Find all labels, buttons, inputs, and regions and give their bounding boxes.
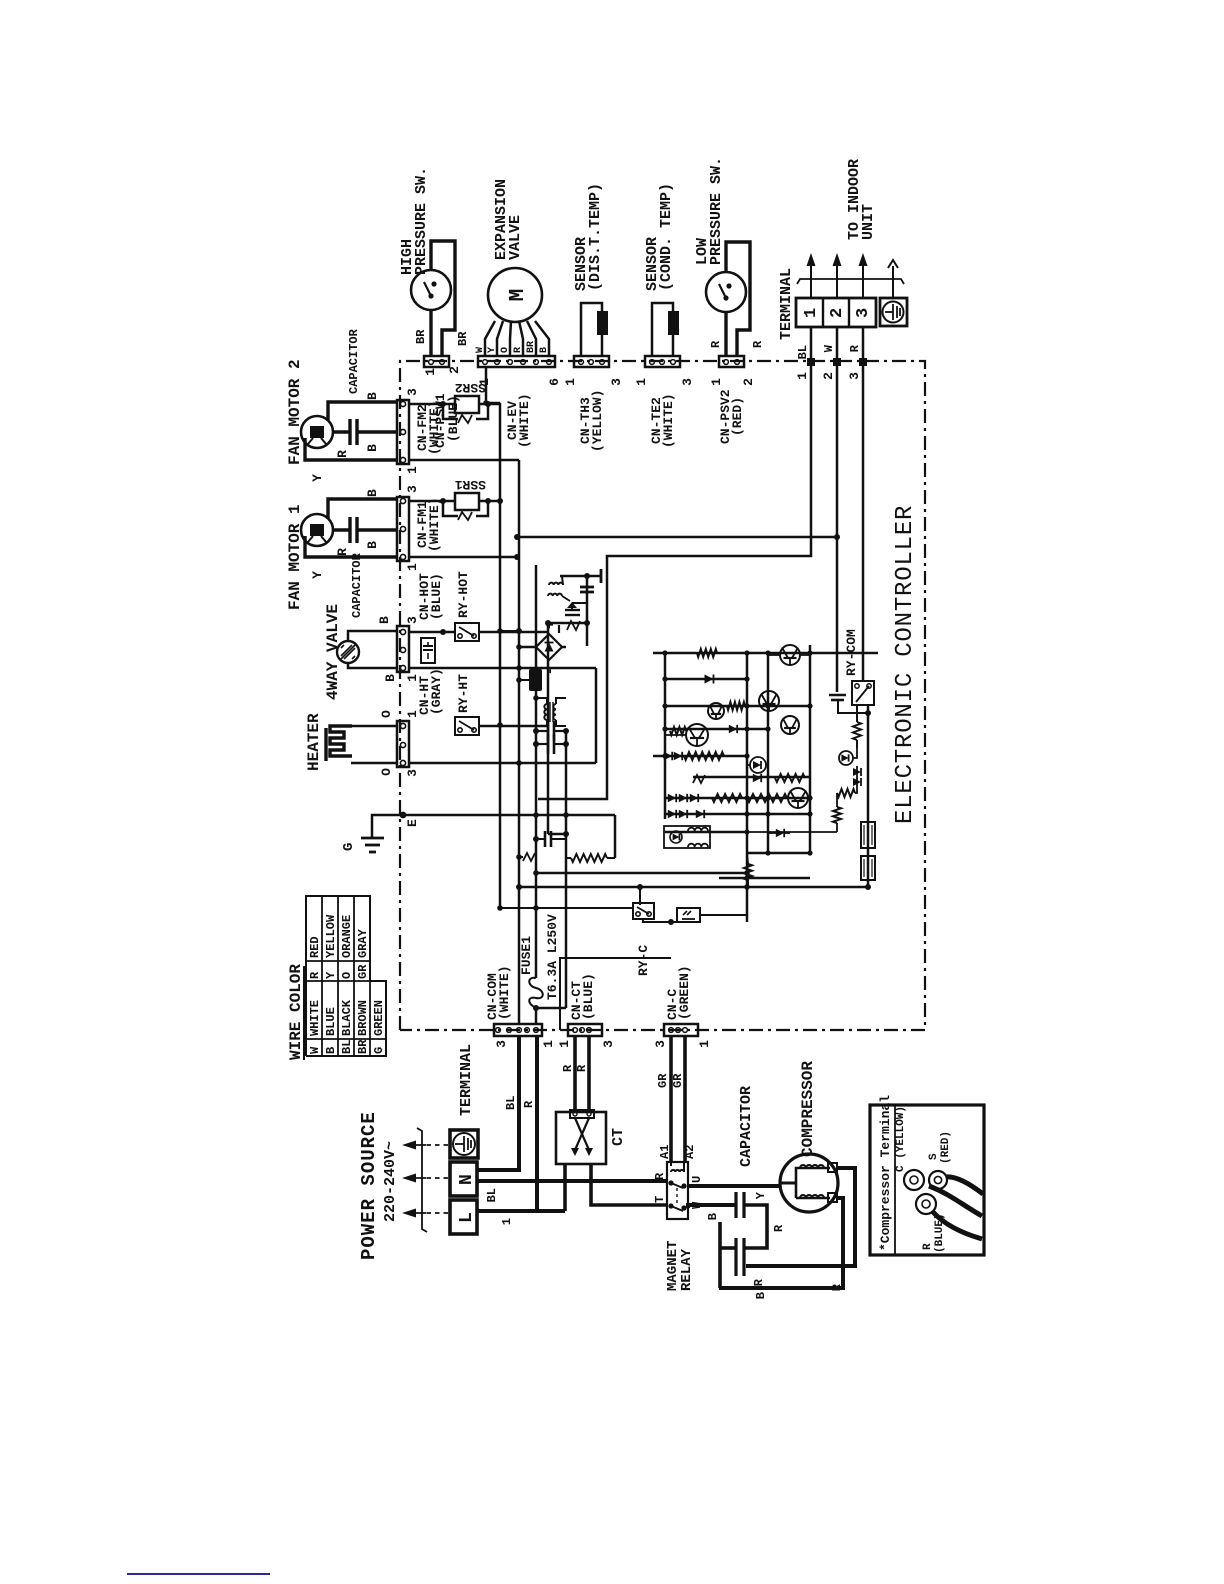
svg-text:2: 2 [741,378,756,386]
svg-text:VALVE: VALVE [507,215,524,260]
compressor wiring loop (bold) [719,1168,855,1299]
svg-text:RY-HT: RY-HT [456,674,471,713]
fuse FUSE1 T6.3A L250V [519,914,560,1024]
connector CN-PSW1 (BLUE) 2-pin [423,356,462,448]
wire R from CN-COM to L (bold) [522,1035,537,1211]
capacitor box of 4-way valve circuit [421,638,435,663]
varistor ZNR1 (black) [519,669,542,691]
connector CN-TE2 (WHITE) [634,356,695,448]
svg-text:1: 1 [405,563,420,571]
svg-text:3: 3 [405,769,420,777]
diode D3 [753,774,761,782]
svg-text:PRESSURE SW.: PRESSURE SW. [708,157,725,265]
svg-text:2: 2 [828,308,847,318]
svg-text:BL: BL [485,1188,499,1202]
capacitor CA (compressor run) [736,1086,786,1232]
svg-text:(WHITE): (WHITE) [517,393,532,448]
cluster rail y=810 [809,645,812,853]
svg-text:(BLUE): (BLUE) [446,395,461,442]
blue footer line [127,1573,270,1575]
svg-text:(WHITE): (WHITE) [497,965,512,1020]
svg-text:GRAY: GRAY [356,928,370,958]
connector CN-PSV2 (RED) 2-pin [709,356,756,444]
wire U to compressor (bold) [688,1186,781,1199]
zener Z1 near rail [516,853,536,861]
svg-text:B: B [365,541,380,549]
svg-text:(RED): (RED) [940,1131,952,1164]
svg-text:B: B [754,1292,768,1299]
bottom bus y=868 with boxes [865,705,871,890]
svg-text:GR: GR [356,964,370,979]
capacitor loop wiring (bold) [720,1205,767,1288]
svg-text:UNIT: UNIT [860,204,877,240]
wire N phase (bold) to magnet relay [477,1181,667,1202]
wire rail net-B (y=519) with BL feed to power terminal [518,460,521,1025]
resistor R9 [747,793,841,832]
svg-text:BR: BR [356,1039,370,1054]
svg-text:2: 2 [447,366,462,374]
svg-text:BR: BR [414,329,428,344]
svg-text:1: 1 [697,1040,712,1048]
ground G (chassis earth) [341,838,384,852]
transformer T1 [536,698,566,726]
compressor terminal S (RED) [928,1131,952,1189]
svg-text:B: B [365,489,380,497]
svg-text:(DIS.T.TEMP): (DIS.T.TEMP) [587,183,604,291]
diode-resistor column x=828 [664,752,724,760]
wires sensor COND to CN-TE2 [652,303,673,356]
svg-text:B: B [365,392,380,400]
svg-text:RELAY: RELAY [679,1248,695,1291]
transistor Q1 [768,645,810,665]
svg-text:1: 1 [405,466,420,474]
svg-text:R: R [335,450,350,458]
resistor R6 [744,853,752,887]
svg-text:3: 3 [854,308,873,318]
resistor R3 [670,727,686,735]
sensor COND.TEMP thermistor [644,183,679,335]
svg-text:N: N [457,1174,477,1185]
svg-text:FUSE1: FUSE1 [519,936,534,975]
wires CT to L circuit (bold) [565,1164,667,1211]
svg-text:BR: BR [456,331,470,346]
svg-text:R: R [772,1224,786,1232]
svg-text:1: 1 [709,378,724,386]
svg-text:R: R [830,1283,844,1291]
wire bottom bus (x=697) [516,884,868,890]
transistor Q3 [759,691,779,711]
svg-text:Y: Y [754,1191,768,1199]
opto coupler PC1 [664,826,710,848]
wires low pressure switch to CN-PSV2 [709,242,765,356]
svg-text:1: 1 [634,378,649,386]
resistor R7 [853,705,861,748]
svg-text:3: 3 [405,485,420,493]
svg-text:TERMINAL: TERMINAL [458,1044,475,1116]
wire CN-EV pin1 into controller [483,367,500,406]
solid state relay SSR2 [409,380,500,423]
fan motor 1 (M) [286,504,333,610]
transistor Q4 [781,716,799,734]
svg-text:3: 3 [494,1040,509,1048]
svg-text:3: 3 [405,388,420,396]
svg-text:(GRAY): (GRAY) [429,668,444,715]
svg-text:3: 3 [601,1040,616,1048]
svg-text:W: W [475,347,486,353]
fan motor 2 (M) [286,359,333,465]
svg-text:O: O [500,347,511,353]
high pressure switch [399,167,451,310]
connector CN-TH3 (YELLOW) [563,356,624,452]
terminal earth [880,298,907,326]
svg-text:SSR1: SSR1 [455,477,486,492]
wires terminal to controller [795,327,867,380]
wires sensor DIS to CN-TH3 [581,303,602,356]
transistor Q5 [665,724,708,746]
wire terminal-1 run (x=1028) [538,362,811,799]
svg-text:(YELLOW): (YELLOW) [590,390,605,452]
svg-text:R: R [922,1243,934,1250]
svg-text:C (YELLOW): C (YELLOW) [895,1106,907,1172]
svg-text:R: R [709,340,723,348]
svg-text:TERMINAL: TERMINAL [778,268,795,340]
svg-text:R: R [513,347,524,353]
connector CN-COM (WHITE) [485,965,556,1047]
svg-text:1: 1 [477,378,492,386]
svg-text:U: U [690,1176,704,1183]
opto LED PC2 [747,757,768,773]
resistor R2 [727,702,745,710]
power source bracket [417,1128,427,1232]
svg-text:Y: Y [310,474,325,482]
compressor terminal leads [929,1177,983,1239]
junction dots on rails [497,628,750,911]
svg-text:3: 3 [680,378,695,386]
svg-text:S: S [928,1153,940,1160]
svg-text:220-240V~: 220-240V~ [382,1141,399,1222]
svg-text:W: W [308,1046,322,1054]
wire CN-HT pin3 down to y596 link [409,762,596,765]
box K1 [861,822,875,848]
svg-text:R: R [848,344,862,352]
cluster rail y=747 [746,653,749,922]
connector CN-HOT (BLUE) 3-pin [397,573,444,682]
svg-text:3: 3 [609,378,624,386]
wires expansion valve to CN-EV (6) [475,321,550,356]
link cap to RY-COM [838,700,871,716]
svg-text:RY-HOT: RY-HOT [456,571,471,618]
box K2 [861,856,875,880]
resistor R8 [837,787,857,797]
connector CN-C (GREEN) [653,965,712,1047]
wire CN-FM2 pin1 to rail B [409,459,519,462]
compressor motor [780,1061,838,1212]
diode D4 [768,829,790,837]
wire W to capacitor (bold) [688,1205,736,1220]
svg-text:*Compressor Terminal: *Compressor Terminal [878,1095,893,1251]
expansion valve motor M [488,179,542,322]
svg-text:RY-C: RY-C [636,945,651,976]
wires 4-way valve to CN-HOT [348,616,398,682]
wire RY-HOT/RY-HT collector (y=548) [548,623,569,837]
resistor chain R-chain to RY-C bus [566,854,615,862]
electronic controller boundary (dash-dot box) [400,361,925,1030]
svg-text:ORANGE: ORANGE [340,915,354,958]
filter capacitors C1 C2 [533,721,569,754]
svg-text:(WHITE): (WHITE) [427,497,442,552]
low pressure switch [694,157,746,312]
wire terminal-2 run (x=1047) [514,362,840,540]
svg-text:B: B [377,616,392,624]
solid state relay SSR1 [409,477,503,520]
wire L phase (bold) [477,1211,565,1225]
svg-text:(WHITE): (WHITE) [661,393,676,448]
svg-text:CT: CT [610,1128,627,1146]
svg-text:(BLUE): (BLUE) [429,573,444,620]
switching supply sub-circuit [545,569,601,646]
capacitor of fan motor 1 [335,517,364,618]
svg-text:HEATER: HEATER [305,713,323,771]
svg-text:CAPACITOR: CAPACITOR [350,552,364,618]
svg-text:FAN MOTOR 2: FAN MOTOR 2 [286,359,304,465]
svg-text:1: 1 [802,308,821,318]
wire rail net-C (y=536) from CN-COM via FUSE1 [535,565,538,972]
svg-text:2: 2 [821,372,836,380]
heater element [305,713,352,771]
svg-text:Y: Y [310,571,325,579]
connector CN-FM2 (WHITE) 3-pin [397,388,442,474]
compressor terminal inset box [870,1095,984,1255]
resistor R1 [697,649,717,657]
capacitor CB (compressor run) [736,1238,766,1286]
wire CN-CT riser (x=626) [560,958,671,1030]
wire rail net-A (y=500) [499,405,502,908]
svg-text:BL: BL [340,1040,354,1054]
svg-text:(BLUE): (BLUE) [581,973,596,1020]
wire BL from CN-COM to N (bold) [477,1035,519,1170]
terminal block 1-2-3 [778,268,876,340]
resistor R5 [712,794,742,802]
bracket for indoor unit wires [797,279,904,284]
diode column x=770 [668,810,704,818]
zener column x=806 [693,775,705,783]
svg-text:CAPACITOR: CAPACITOR [738,1086,755,1167]
cluster cross wires [653,650,878,880]
capacitor end of terminal-2 wire [829,537,846,700]
compressor terminal C (YELLOW) [895,1106,924,1190]
magnet relay MR [653,1145,704,1291]
wires fan motor 2 to CN-FM2 [305,392,397,482]
svg-text:WHITE: WHITE [308,1000,322,1036]
relay contact RY-HOT [409,571,548,641]
svg-text:W: W [822,344,836,352]
wire CN-HOT pin1 to CN-HT pin3 link (y=596) [595,668,598,763]
label POWER SOURCE 220-240V~ [358,1111,399,1260]
current transformer CT [556,1110,627,1164]
svg-text:T6.3A L250V: T6.3A L250V [545,914,560,1000]
svg-text:G: G [372,1047,386,1054]
wire CN-HOT pin1 down to y596 link [409,667,596,670]
svg-text:1: 1 [541,1040,556,1048]
cluster rail y=665 [664,653,667,819]
arrows to indoor unit [807,159,899,298]
power terminal block L N earth [450,1044,478,1234]
svg-text:-: - [543,667,559,675]
svg-text:1: 1 [500,1218,514,1225]
svg-text:B: B [365,444,380,452]
svg-text:BL: BL [796,345,810,359]
svg-text:RY-COM: RY-COM [844,629,859,676]
svg-text:CAPACITOR: CAPACITOR [347,328,361,394]
diode column x=786 [668,794,787,802]
svg-text:GREEN: GREEN [372,1000,386,1036]
svg-text:FAN MOTOR 1: FAN MOTOR 1 [286,504,304,610]
svg-text:PRESSURE SW.: PRESSURE SW. [413,167,430,275]
svg-text:T: T [653,1196,667,1203]
sensor DIS.T.TEMP thermistor [573,183,608,335]
svg-text:B: B [324,1047,338,1054]
diode pair D2 [729,725,737,733]
4-way valve coil [324,604,359,700]
svg-text:O: O [379,710,394,718]
svg-text:R: R [561,1064,575,1072]
svg-text:1: 1 [557,1040,572,1048]
svg-text:R: R [575,1064,589,1072]
wires CN-CT to CT (bold) [561,1036,589,1110]
svg-text:COMPRESSOR: COMPRESSOR [799,1061,817,1157]
wire color legend table [287,896,386,1060]
svg-text:BROWN: BROWN [356,1000,370,1036]
relay contact RY-HT [455,674,548,735]
connector CN-EV (WHITE) 6-pin [477,356,562,448]
wire CN-FM1 pin1 to rail B [409,554,520,560]
wires CN-C to magnet relay coil (bold) [656,1036,685,1162]
relay contact RY-COM [852,362,874,705]
snubber box RC1 [643,908,747,925]
svg-text:M: M [507,289,530,302]
relay coil RY-C [633,884,654,976]
wires fan motor 1 to CN-FM1 [305,489,397,579]
connector CN-FM1 (WHITE) 3-pin [397,485,442,571]
svg-text:R: R [653,1172,667,1180]
svg-text:R: R [522,1100,536,1108]
svg-text:A2: A2 [683,1145,697,1159]
wires high pressure switch to CN-PSW1 [414,241,470,356]
svg-text:(RED): (RED) [730,397,745,436]
svg-text:GR: GR [656,1073,670,1088]
svg-text:(COND. TEMP): (COND. TEMP) [658,183,675,291]
svg-text:3: 3 [653,1040,668,1048]
svg-text:1: 1 [423,368,438,376]
wire rail net-D (y=566) [533,731,566,1011]
svg-text:A1: A1 [658,1145,672,1159]
svg-text:E: E [405,819,420,827]
svg-text:R: R [308,971,322,979]
svg-text:WIRE COLOR: WIRE COLOR [287,964,305,1060]
svg-text:R: R [751,340,765,348]
capacitor C3 on supply loop [533,831,566,847]
svg-text:YELLOW: YELLOW [324,914,338,958]
svg-text:L: L [457,1212,477,1223]
svg-text:R: R [752,1278,766,1286]
capacitor of fan motor 2 [335,328,361,457]
opto LED PC3 + diodes [839,748,861,787]
transistor Q2 [708,703,724,719]
svg-text:B: B [706,1213,720,1220]
svg-text:(GREEN): (GREEN) [677,965,692,1020]
node E [372,812,615,858]
svg-text:R: R [335,548,350,556]
svg-text:3: 3 [847,372,862,380]
svg-text:BL: BL [504,1096,518,1110]
svg-text:B: B [539,347,550,353]
wire mid bus (x=711) [533,870,750,876]
svg-text:POWER SOURCE: POWER SOURCE [358,1111,380,1260]
rail A drop to supply [500,628,633,911]
svg-text:1: 1 [563,378,578,386]
svg-text:GR: GR [671,1073,685,1088]
diode D1 [705,675,714,684]
svg-text:O: O [379,768,394,776]
svg-text:BLACK: BLACK [340,999,354,1036]
svg-text:ELECTRONIC CONTROLLER: ELECTRONIC CONTROLLER [892,505,919,824]
connector CN-CT (BLUE) [557,973,616,1048]
bridge rectifier DB1 [519,621,566,676]
cluster rail y=768 [767,653,770,853]
svg-text:1: 1 [795,372,810,380]
power source arrows [402,1141,448,1218]
connector CN-HT (GRAY) 3-pin [397,668,444,777]
resistor R4 [775,774,805,782]
svg-text:BLUE: BLUE [324,1007,338,1036]
svg-text:O: O [340,972,354,979]
svg-text:6: 6 [547,378,562,386]
label RY-COM [844,629,859,676]
svg-text:RED: RED [308,936,322,958]
svg-text:BR: BR [526,341,537,353]
transistor Q6 [788,788,808,808]
svg-text:B: B [383,674,398,682]
svg-text:4WAY VALVE: 4WAY VALVE [324,604,342,700]
svg-text:Y: Y [487,347,498,353]
svg-text:G: G [341,843,357,851]
wires heater to CN-HT [351,710,397,776]
label ELECTRONIC CONTROLLER [892,505,919,824]
compressor terminal R (BLUE) [916,1194,946,1253]
svg-text:Y: Y [324,971,338,979]
